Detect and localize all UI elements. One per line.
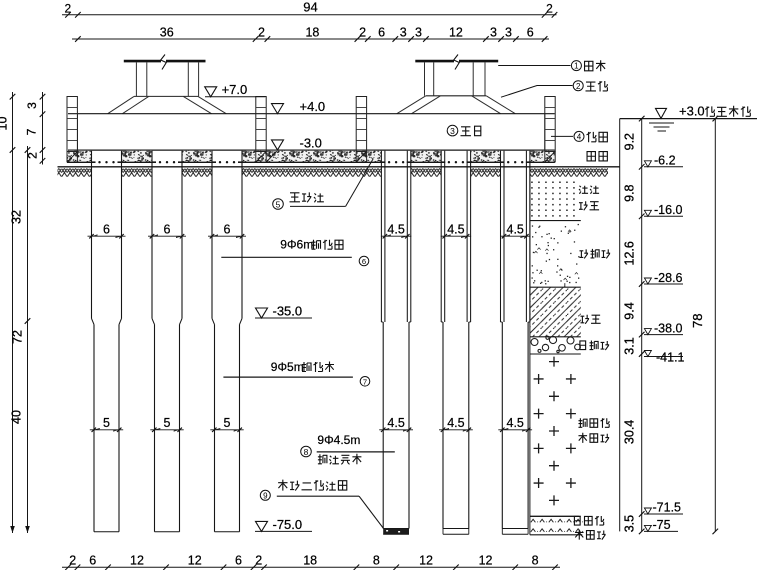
svg-text:3.5: 3.5 bbox=[623, 515, 637, 532]
svg-text:6: 6 bbox=[378, 25, 385, 39]
svg-text:12.6: 12.6 bbox=[623, 241, 637, 265]
svg-text:8: 8 bbox=[304, 447, 309, 457]
svg-text:5: 5 bbox=[224, 416, 231, 430]
svg-text:2: 2 bbox=[576, 82, 581, 91]
svg-text:6: 6 bbox=[164, 223, 171, 237]
svg-text:6: 6 bbox=[362, 257, 366, 266]
svg-text:3: 3 bbox=[450, 126, 455, 136]
svg-text:40: 40 bbox=[10, 410, 24, 424]
svg-text:5: 5 bbox=[164, 416, 171, 430]
svg-text:2: 2 bbox=[64, 2, 71, 16]
svg-text:30.4: 30.4 bbox=[623, 420, 637, 444]
svg-text:4.5: 4.5 bbox=[447, 416, 464, 430]
svg-text:3: 3 bbox=[415, 25, 422, 39]
svg-text:2: 2 bbox=[359, 25, 366, 39]
svg-text:5: 5 bbox=[103, 416, 110, 430]
svg-text:7: 7 bbox=[25, 128, 39, 135]
svg-text:6: 6 bbox=[527, 25, 534, 39]
svg-text:2: 2 bbox=[26, 152, 40, 159]
svg-text:-3.0: -3.0 bbox=[300, 135, 322, 150]
svg-text:9Φ5m: 9Φ5m bbox=[271, 360, 304, 374]
svg-text:-75: -75 bbox=[653, 518, 671, 532]
svg-text:12: 12 bbox=[188, 553, 202, 567]
svg-text:-35.0: -35.0 bbox=[273, 303, 303, 318]
svg-text:6: 6 bbox=[103, 223, 110, 237]
svg-text:32: 32 bbox=[10, 210, 24, 224]
svg-text:9: 9 bbox=[263, 491, 268, 500]
svg-text:5: 5 bbox=[276, 199, 281, 209]
svg-text:9Φ6m: 9Φ6m bbox=[280, 238, 313, 252]
svg-text:9Φ4.5m: 9Φ4.5m bbox=[317, 433, 360, 447]
svg-text:3: 3 bbox=[400, 25, 407, 39]
svg-text:8: 8 bbox=[373, 553, 380, 567]
svg-text:2: 2 bbox=[546, 2, 553, 16]
svg-text:18: 18 bbox=[305, 25, 319, 39]
svg-text:3: 3 bbox=[490, 25, 497, 39]
svg-text:-71.5: -71.5 bbox=[653, 501, 682, 515]
svg-text:10: 10 bbox=[0, 117, 10, 131]
svg-text:36: 36 bbox=[160, 25, 174, 39]
svg-text:-6.2: -6.2 bbox=[654, 154, 676, 168]
svg-text:2: 2 bbox=[69, 553, 76, 567]
svg-text:2: 2 bbox=[258, 25, 265, 39]
svg-text:9.2: 9.2 bbox=[623, 133, 637, 150]
svg-text:72: 72 bbox=[11, 330, 25, 344]
svg-text:8: 8 bbox=[532, 553, 539, 567]
svg-text:-38.0: -38.0 bbox=[654, 321, 683, 335]
svg-text:4.5: 4.5 bbox=[387, 223, 404, 237]
svg-text:-41.1: -41.1 bbox=[656, 351, 685, 365]
svg-text:2: 2 bbox=[255, 553, 262, 567]
svg-text:9.4: 9.4 bbox=[623, 302, 637, 319]
svg-text:6: 6 bbox=[89, 553, 96, 567]
svg-text:-75.0: -75.0 bbox=[273, 517, 303, 532]
svg-text:+7.0: +7.0 bbox=[222, 82, 248, 97]
svg-text:9.8: 9.8 bbox=[623, 184, 637, 201]
svg-text:3: 3 bbox=[25, 102, 39, 109]
svg-text:12: 12 bbox=[419, 553, 433, 567]
svg-text:7: 7 bbox=[363, 377, 367, 386]
svg-text:6: 6 bbox=[235, 553, 242, 567]
svg-text:+4.0: +4.0 bbox=[300, 99, 326, 114]
svg-text:1: 1 bbox=[574, 62, 579, 71]
svg-text:-16.0: -16.0 bbox=[654, 203, 683, 217]
svg-text:12: 12 bbox=[449, 25, 463, 39]
svg-text:4.5: 4.5 bbox=[387, 416, 404, 430]
svg-text:4.5: 4.5 bbox=[447, 223, 464, 237]
svg-text:6: 6 bbox=[224, 223, 231, 237]
svg-text:-28.6: -28.6 bbox=[654, 271, 683, 285]
svg-text:78: 78 bbox=[690, 314, 705, 328]
svg-text:18: 18 bbox=[303, 553, 317, 567]
svg-text:12: 12 bbox=[130, 553, 144, 567]
svg-text:94: 94 bbox=[303, 0, 317, 15]
svg-text:12: 12 bbox=[479, 553, 493, 567]
svg-text:4: 4 bbox=[577, 133, 582, 142]
svg-text:3: 3 bbox=[505, 25, 512, 39]
svg-text:4.5: 4.5 bbox=[507, 223, 524, 237]
svg-text:4.5: 4.5 bbox=[507, 416, 524, 430]
svg-text:+3.0: +3.0 bbox=[679, 103, 705, 118]
svg-text:3.1: 3.1 bbox=[623, 337, 637, 354]
